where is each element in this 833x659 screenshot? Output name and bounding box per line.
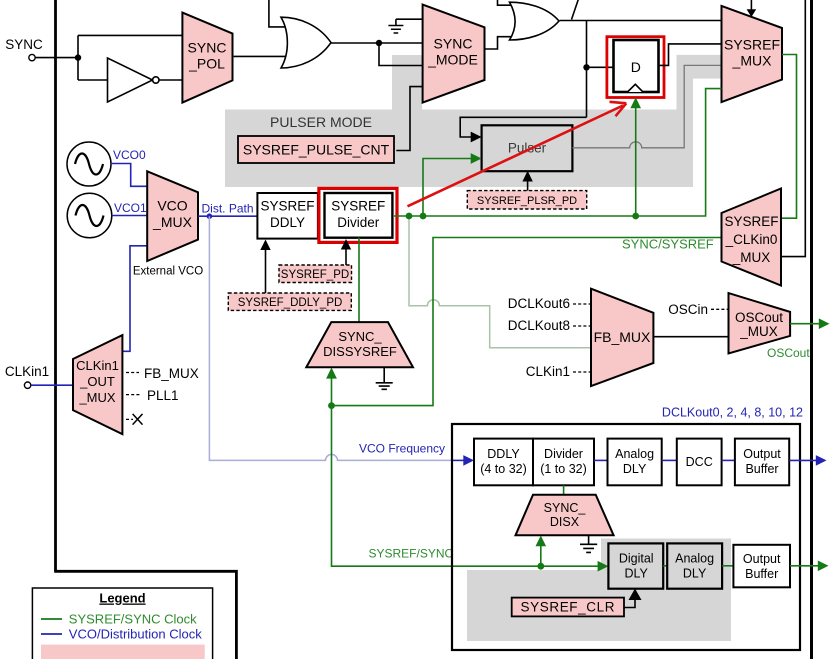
svg-text:Divider: Divider bbox=[337, 215, 380, 230]
wire CLKin1 input bbox=[31, 384, 74, 386]
svg-text:SYSREF: SYSREF bbox=[724, 37, 780, 53]
svg-text:PULSER MODE: PULSER MODE bbox=[270, 114, 372, 130]
svg-text:DCC: DCC bbox=[686, 455, 713, 469]
svg-text:Analog: Analog bbox=[675, 552, 714, 566]
dashed line OSCin to OSCout_MUX bbox=[711, 308, 729, 310]
wire FB_MUX output to OSCout_MUX bbox=[653, 336, 728, 338]
CLKin1 input terminal bbox=[24, 382, 30, 388]
block Pulser bbox=[482, 125, 573, 171]
svg-text:PLL1: PLL1 bbox=[147, 388, 179, 403]
svg-text:SYSREF/SYNC Clock: SYSREF/SYNC Clock bbox=[69, 612, 197, 627]
wire blue DCC to Output Buffer bbox=[722, 459, 735, 461]
block Output Buffer (row2) bbox=[733, 545, 790, 588]
label CLKin1 at FB_MUX bbox=[526, 364, 570, 379]
svg-text:Divider: Divider bbox=[544, 447, 583, 461]
grey region DCLKout lower background bbox=[467, 539, 731, 642]
flip-flop D bbox=[614, 40, 659, 92]
outer border left edge bbox=[54, 0, 57, 571]
svg-text:D: D bbox=[631, 59, 641, 75]
svg-text:DISSYSREF: DISSYSREF bbox=[323, 344, 397, 359]
svg-text:DLY: DLY bbox=[625, 567, 649, 581]
inverter (NOT gate) bbox=[108, 58, 160, 102]
svg-text:_POL: _POL bbox=[188, 56, 225, 72]
dashed line DCLKout8 to FB_MUX bbox=[573, 325, 591, 327]
svg-text:SYNC: SYNC bbox=[5, 37, 43, 52]
oscillator VCO1 bbox=[67, 193, 112, 238]
wire green SYSREF_MUX output loop to SYSREF_CLKin0_MUX bbox=[782, 55, 797, 219]
svg-text:VCO Frequency: VCO Frequency bbox=[359, 442, 445, 456]
register SYSREF_PLSR_PD bbox=[467, 191, 586, 209]
OR gate 2 bbox=[510, 2, 560, 40]
label DCLKout0, 2, 4, 8, 10, 12 bbox=[662, 406, 803, 420]
wire green Digital to Analog DLY bbox=[663, 565, 667, 567]
svg-text:DDLY: DDLY bbox=[270, 215, 305, 230]
svg-text:SYSREF_PLSR_PD: SYSREF_PLSR_PD bbox=[477, 195, 577, 207]
wire green SYNC/SYSREF net (CLKin0 mux to distribution) bbox=[332, 238, 722, 572]
legend title bbox=[99, 591, 145, 606]
svg-text:Output: Output bbox=[743, 447, 781, 461]
mux OSCout_MUX bbox=[729, 293, 791, 353]
svg-text:_MUX: _MUX bbox=[78, 390, 115, 405]
mux CLKin1_OUT_MUX bbox=[73, 335, 122, 434]
svg-text:SYSREF/SYNC: SYSREF/SYNC bbox=[369, 547, 454, 561]
wire green to D clock bbox=[630, 97, 641, 216]
wire green Analog DLY to Output Buffer bbox=[722, 565, 733, 567]
ground (SYNC_MODE input) bbox=[388, 19, 403, 33]
mux VCO_MUX bbox=[147, 171, 198, 261]
register SYSREF_CLR bbox=[512, 598, 624, 617]
SYNC input label bbox=[5, 37, 43, 52]
wire SYNC_POL output to OR1 bbox=[234, 55, 287, 57]
wire inverter output to SYNC_POL bbox=[159, 79, 182, 81]
mux SYSREF_MUX bbox=[722, 6, 783, 102]
wire green SYSREF output arrow bbox=[790, 561, 829, 572]
wire SYSREF_PULSE_CNT to SYNC_MODE low input bbox=[396, 87, 422, 151]
dashed line to FB_MUX label bbox=[126, 372, 139, 374]
svg-text:Analog: Analog bbox=[615, 447, 654, 461]
wire OR1 output to SYNC_MODE bbox=[331, 42, 423, 44]
wire Pulser output to SYSREF_MUX input3 (with hop) bbox=[572, 65, 721, 147]
svg-text:SYSREF: SYSREF bbox=[260, 199, 314, 214]
grey region PULSER MODE background bbox=[225, 55, 722, 187]
wire VCO_MUX output to SYSREF DDLY bbox=[198, 215, 257, 217]
svg-text:DCLKout6: DCLKout6 bbox=[508, 296, 570, 311]
svg-text:DCLKout8: DCLKout8 bbox=[508, 318, 570, 333]
SYNC input terminal bbox=[29, 54, 35, 60]
label OSCout bbox=[767, 346, 810, 360]
svg-text:SYNC_: SYNC_ bbox=[338, 329, 382, 344]
wire D output to SYSREF_MUX input2 bbox=[659, 44, 722, 66]
oscillator VCO0 bbox=[67, 142, 111, 186]
svg-text:FB_MUX: FB_MUX bbox=[594, 329, 651, 345]
label VCO Frequency bbox=[359, 442, 445, 456]
legend green line sample bbox=[41, 618, 62, 620]
node OR1 output junction bbox=[376, 40, 382, 46]
register SYSREF_PULSE_CNT bbox=[238, 136, 394, 163]
label OSCin bbox=[668, 302, 708, 317]
wire VCO0 to VCO_MUX bbox=[111, 164, 147, 187]
red highlight SYSREF Divider bbox=[319, 188, 397, 242]
label CLKin1 input bbox=[5, 364, 49, 379]
wire arrow SYSREF_DDLY_PD to DDLY bbox=[260, 240, 270, 294]
block DCLKout outer box bbox=[452, 424, 800, 650]
wire blue Divider to Analog DLY bbox=[594, 459, 608, 461]
label PLL1 bbox=[147, 388, 179, 403]
svg-text:SYNC: SYNC bbox=[434, 36, 473, 52]
wire arrow SYSREF_PLSR_PD to Pulser bbox=[522, 171, 532, 191]
block SYSREF DDLY bbox=[257, 193, 318, 239]
svg-text:DISX: DISX bbox=[550, 515, 580, 529]
wire green Divider to SYNC_DISX bbox=[563, 485, 565, 494]
svg-text:OSCout: OSCout bbox=[735, 310, 783, 325]
svg-text:_MUX: _MUX bbox=[739, 324, 778, 339]
label SYSREF/SYNC bbox=[369, 547, 454, 561]
svg-text:Dist. Path: Dist. Path bbox=[202, 202, 254, 216]
wire pale SYSREF to FB_MUX (with hop) bbox=[409, 216, 591, 348]
block Output Buffer (row1) bbox=[735, 439, 789, 486]
wire down-left to Pulser input bbox=[460, 117, 586, 142]
legend label VCO/Distribution Clock bbox=[69, 627, 202, 642]
wire junction to D input bbox=[587, 66, 614, 68]
svg-text:Output: Output bbox=[743, 552, 781, 566]
svg-text:Buffer: Buffer bbox=[745, 462, 778, 476]
svg-text:SYSREF_CLR: SYSREF_CLR bbox=[521, 600, 616, 615]
svg-text:SYNC_: SYNC_ bbox=[544, 501, 587, 515]
svg-text:CLKin1: CLKin1 bbox=[5, 364, 49, 379]
label External VCO bbox=[133, 266, 203, 278]
svg-text:CLKin1: CLKin1 bbox=[526, 364, 570, 379]
svg-text:OSCin: OSCin bbox=[668, 302, 708, 317]
mux SYNC_MODE bbox=[423, 5, 485, 103]
bus slash on OR2 output bbox=[572, 0, 579, 20]
svg-text:VCO0: VCO0 bbox=[113, 148, 146, 162]
wire green Divider bottom to SYNC_DISSYSREF bbox=[358, 238, 360, 322]
trapezoid SYNC_DISX bbox=[516, 495, 614, 536]
wire SYNC branch vertical bbox=[77, 35, 79, 80]
dashed line DCLKout6 to FB_MUX bbox=[573, 303, 591, 305]
node divider output junction 3 bbox=[632, 213, 639, 220]
svg-text:_MUX: _MUX bbox=[732, 250, 771, 265]
svg-text:_MODE: _MODE bbox=[427, 52, 478, 68]
block Divider (1 to 32) bbox=[533, 439, 594, 486]
wire VCO Frequency (junction down to DCLKout block, with hop) bbox=[209, 216, 474, 466]
legend blue line sample bbox=[41, 633, 62, 635]
wire SYNC_MODE output to OR2 bbox=[485, 37, 514, 49]
label VCO1 bbox=[114, 201, 147, 215]
wire OR1 top input from top edge bbox=[269, 0, 287, 27]
trapezoid SYNC_DISSYSREF bbox=[306, 322, 413, 367]
block DCC bbox=[677, 439, 722, 486]
node SYNC junction bbox=[75, 54, 81, 60]
svg-text:VCO1: VCO1 bbox=[114, 201, 147, 215]
block Digital DLY bbox=[608, 543, 663, 588]
wire ground to SYNC_MODE top input bbox=[396, 18, 423, 20]
register SYSREF_DDLY_PD bbox=[228, 293, 351, 310]
svg-text:VCO: VCO bbox=[157, 198, 187, 214]
mux SYNC_POL bbox=[182, 13, 232, 103]
node divider output junction 1 bbox=[406, 213, 413, 220]
wire SYSREF_MUX top input arrow from top edge bbox=[747, 0, 757, 17]
svg-text:DCLKout0, 2, 4, 8, 10, 12: DCLKout0, 2, 4, 8, 10, 12 bbox=[662, 406, 803, 420]
svg-text:SYSREF: SYSREF bbox=[331, 199, 385, 214]
svg-text:_MUX: _MUX bbox=[732, 53, 773, 69]
legend box bbox=[32, 588, 212, 659]
svg-text:SYSREF: SYSREF bbox=[724, 214, 778, 229]
wire green to Pulser input bbox=[423, 153, 482, 216]
svg-text:SYSREF_DDLY_PD: SYSREF_DDLY_PD bbox=[238, 297, 343, 309]
flip-flop D red highlight bbox=[607, 37, 664, 98]
wire green OSCout output arrow bbox=[790, 318, 829, 329]
wire SYNC to SYNC_POL top input bbox=[78, 34, 182, 36]
block Analog DLY (row2) bbox=[667, 543, 722, 588]
svg-text:_OUT: _OUT bbox=[79, 374, 115, 389]
svg-text:CLKin1: CLKin1 bbox=[76, 358, 119, 373]
outer border bottom step bbox=[54, 571, 236, 659]
svg-text:VCO/Distribution Clock: VCO/Distribution Clock bbox=[69, 627, 202, 642]
wire VCO1 to VCO_MUX bbox=[112, 215, 147, 217]
wire junction down to SYNC_MODE mid input bbox=[379, 43, 423, 66]
wire OR2 top input from top edge bbox=[498, 0, 514, 5]
svg-text:SYNC/SYSREF: SYNC/SYSREF bbox=[622, 237, 714, 252]
svg-text:Legend: Legend bbox=[99, 591, 145, 606]
node SYNC/SYSREF junction at DISSYSREF bbox=[328, 402, 335, 409]
svg-text:(1 to 32): (1 to 32) bbox=[540, 462, 587, 476]
svg-text:SYNC: SYNC bbox=[188, 40, 227, 56]
legend pink sample bbox=[41, 645, 205, 659]
mux FB_MUX bbox=[591, 289, 653, 386]
dashed stub with X (unused input) bbox=[126, 414, 143, 425]
register SYSREF_PD bbox=[279, 265, 352, 283]
svg-text:SYSREF_PD: SYSREF_PD bbox=[281, 269, 349, 281]
block DDLY (4 to 32) bbox=[474, 439, 533, 486]
svg-text:FB_MUX: FB_MUX bbox=[144, 366, 199, 381]
label Dist. Path bbox=[202, 202, 254, 216]
wire OR2 output to SYSREF_MUX input1 bbox=[560, 20, 722, 22]
label FB_MUX bbox=[144, 366, 199, 381]
wire green arrow up to SYNC_DISSYSREF bbox=[326, 368, 337, 406]
wire blue Analog DLY to DCC bbox=[662, 459, 677, 461]
OR gate 1 bbox=[281, 17, 331, 68]
node Dist. Path junction bbox=[207, 213, 213, 219]
svg-text:_CLKin0: _CLKin0 bbox=[725, 232, 778, 247]
block SYSREF Divider bbox=[325, 193, 393, 238]
node divider output junction 2 bbox=[420, 213, 427, 220]
node D input junction bbox=[583, 64, 589, 70]
wire arrow SYSREF_CLR to Digital DLY bbox=[624, 589, 642, 608]
svg-text:Digital: Digital bbox=[619, 552, 654, 566]
wire SYNC to inverter input bbox=[78, 79, 108, 81]
label VCO0 bbox=[113, 148, 146, 162]
outer border right edge bbox=[810, 0, 813, 659]
svg-text:OSCout: OSCout bbox=[767, 346, 810, 360]
node SYNC/SYSREF junction at DISX bbox=[537, 563, 544, 570]
ground below SYNC_DISX bbox=[580, 535, 597, 552]
mux SYSREF_CLKin0_MUX bbox=[722, 189, 782, 286]
wire SYSREF Divider output (green) bbox=[394, 89, 722, 216]
wire vertical from OR2 output line down bbox=[586, 21, 588, 118]
red arrow Divider to D clock bbox=[408, 102, 627, 207]
svg-text:(4 to 32): (4 to 32) bbox=[480, 462, 527, 476]
svg-text:DLY: DLY bbox=[623, 462, 647, 476]
wire blue DCLKout output arrow bbox=[789, 455, 826, 466]
wire green arrow up to SYNC_DISX bbox=[536, 536, 547, 567]
ground below SYNC_DISSYSREF bbox=[376, 367, 393, 389]
PULSER MODE title bbox=[270, 114, 372, 130]
wire arrow SYSREF_PD to Divider bbox=[341, 239, 351, 265]
svg-text:External VCO: External VCO bbox=[133, 266, 203, 278]
label SYNC/SYSREF bbox=[622, 237, 714, 252]
svg-text:_MUX: _MUX bbox=[152, 214, 193, 230]
label DCLKout6 bbox=[508, 296, 570, 311]
wire CLKin1_OUT_MUX to VCO_MUX (External VCO) bbox=[122, 246, 147, 351]
block Analog DLY (row1) bbox=[608, 439, 662, 486]
svg-text:SYSREF_PULSE_CNT: SYSREF_PULSE_CNT bbox=[243, 142, 390, 158]
legend label SYSREF/SYNC Clock bbox=[69, 612, 197, 627]
label DCLKout8 bbox=[508, 318, 570, 333]
dashed line CLKin1 to FB_MUX bbox=[573, 371, 591, 373]
svg-text:DDLY: DDLY bbox=[487, 447, 520, 461]
dashed line to PLL1 label bbox=[126, 394, 140, 396]
svg-text:Buffer: Buffer bbox=[745, 567, 778, 581]
wire right inner vertical to SYSREF_CLKin0_MUX bbox=[782, 0, 806, 257]
svg-text:DLY: DLY bbox=[683, 567, 707, 581]
wire SYNC input bbox=[35, 57, 78, 59]
